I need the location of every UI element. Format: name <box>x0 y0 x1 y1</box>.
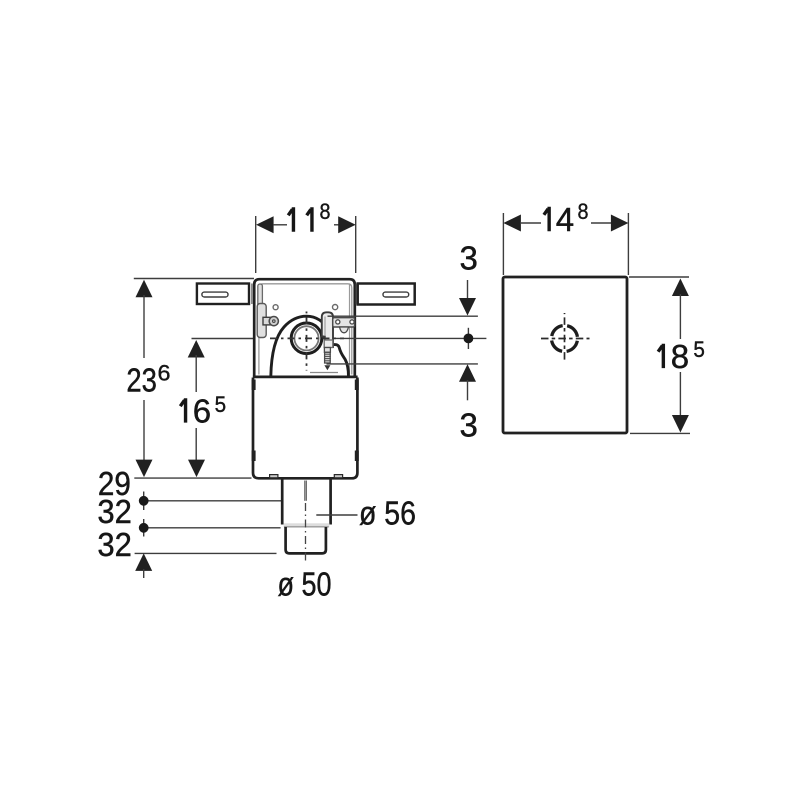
dimension 16.5 <box>188 340 205 477</box>
inlet crosshair vertical <box>306 312 308 371</box>
label 18.5 <box>658 337 705 375</box>
svg-text:32: 32 <box>97 493 131 530</box>
dimension 3 lower <box>459 364 476 400</box>
hook post <box>324 340 333 348</box>
label 23.6 <box>126 361 170 399</box>
dimension 18.5 <box>629 277 690 433</box>
svg-text:8: 8 <box>578 199 589 224</box>
lower frame box <box>253 378 357 479</box>
chain dot 29/32 <box>139 492 149 511</box>
label 14.8 <box>544 199 589 238</box>
dimension 14.8 <box>503 213 628 275</box>
cover target crosshair vertical <box>564 313 566 363</box>
right bracket arm <box>333 318 355 333</box>
svg-text:8: 8 <box>671 338 689 375</box>
left latch block <box>257 304 266 338</box>
collar seam lines <box>305 481 307 501</box>
extension line pipe axis (16.5) <box>192 338 256 340</box>
leader line 32 upper <box>144 527 281 529</box>
extension line top datum (23.6) <box>134 278 254 280</box>
trap bell <box>271 316 349 376</box>
chain bottom arrow <box>135 553 152 578</box>
frame clips right <box>355 380 359 462</box>
screw tip <box>324 365 330 370</box>
left screw shaft <box>263 317 272 325</box>
bottom tab left <box>270 475 278 478</box>
svg-text:3: 3 <box>460 406 478 443</box>
svg-text:23: 23 <box>126 361 156 398</box>
left bracket slot <box>202 292 228 297</box>
dimension 3 upper <box>459 280 476 316</box>
outlet collar d56 <box>282 480 330 525</box>
cover target circle <box>552 326 578 352</box>
left screw head <box>269 317 278 326</box>
cover plate rectangle <box>503 277 627 433</box>
axis dot marker <box>464 328 474 349</box>
chain dot 32/32 <box>139 519 149 537</box>
upper housing box <box>254 279 355 377</box>
reference line screw tip (3 lower) <box>327 363 478 365</box>
left mounting bracket <box>197 284 252 305</box>
leader d56 <box>316 514 357 516</box>
upper box bottom flange <box>253 376 358 379</box>
svg-text:5: 5 <box>215 392 227 417</box>
bell weir line <box>310 372 338 374</box>
reference line pipe axis to dot <box>336 337 486 339</box>
upper housing inner wall <box>259 284 352 375</box>
outlet pipe d50 <box>286 527 326 553</box>
leader line 32 lower <box>135 552 277 554</box>
overflow hook <box>322 312 333 347</box>
svg-text:5: 5 <box>693 337 705 362</box>
svg-text:ø 50: ø 50 <box>278 566 332 603</box>
inlet crosshair horizontal <box>270 337 344 339</box>
hole right <box>333 305 338 310</box>
svg-text:3: 3 <box>460 240 478 277</box>
threaded screw <box>324 348 331 364</box>
svg-text:32: 32 <box>97 526 131 563</box>
cover target crosshair horizontal <box>541 338 590 340</box>
right mounting bracket <box>356 284 415 305</box>
svg-text:6: 6 <box>193 393 211 430</box>
inlet pipe outer ring <box>291 323 322 354</box>
bottom tab right <box>334 475 342 478</box>
inlet pipe inner ring <box>294 326 318 350</box>
label 11.8 <box>288 199 330 232</box>
frame clips left <box>252 380 256 462</box>
left inner rail <box>258 284 263 338</box>
pipe centerline <box>305 503 307 562</box>
leader line 29 <box>144 500 282 502</box>
right bracket slot <box>383 292 409 297</box>
svg-text:4: 4 <box>556 201 574 238</box>
datum line bottom of frame <box>134 477 251 479</box>
svg-text:8: 8 <box>320 199 331 224</box>
label 16.5 <box>180 392 226 430</box>
collar transition <box>284 523 330 527</box>
dimension 23.6 <box>136 280 153 477</box>
svg-text:6: 6 <box>158 361 171 386</box>
dimension 11.8 <box>256 216 356 273</box>
svg-text:ø 56: ø 56 <box>359 495 416 532</box>
reference line hook top (3 upper) <box>328 315 478 317</box>
hole left <box>273 305 278 310</box>
